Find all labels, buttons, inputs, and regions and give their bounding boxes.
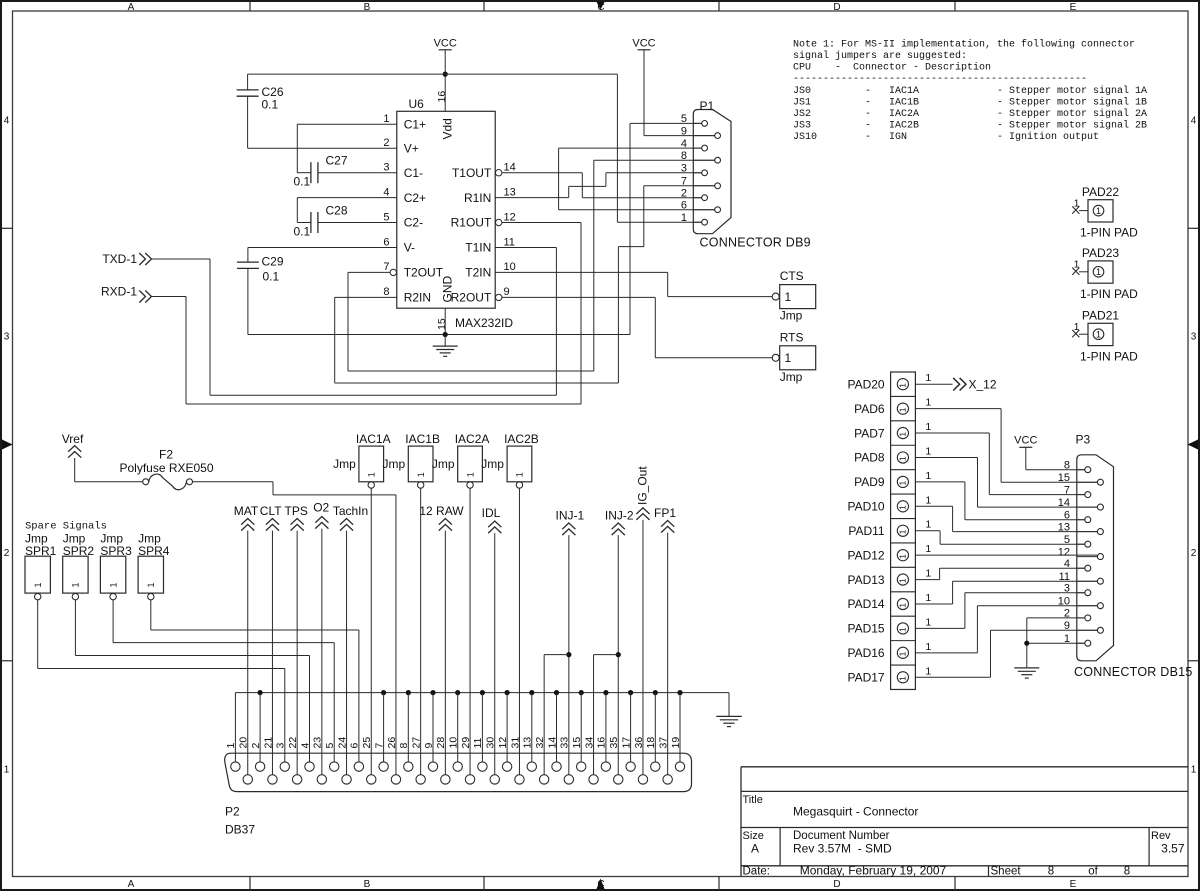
svg-text:1: 1 (1074, 259, 1080, 271)
svg-text:11: 11 (504, 236, 515, 248)
svg-text:15: 15 (1058, 472, 1070, 484)
svg-text:15: 15 (436, 318, 448, 330)
svg-text:PAD20: PAD20 (847, 377, 884, 391)
svg-text:14: 14 (504, 162, 516, 174)
svg-text:17: 17 (620, 737, 632, 749)
svg-text:1: 1 (925, 470, 931, 482)
svg-text:2: 2 (4, 548, 10, 559)
svg-text:13: 13 (504, 186, 516, 198)
svg-text:1: 1 (925, 592, 931, 604)
svg-text:31: 31 (509, 737, 521, 749)
svg-text:JS2 - IAC2A: JS2 - IAC2A - Stepper motor signal 2A (793, 108, 1147, 120)
svg-text:14: 14 (1058, 497, 1070, 509)
svg-text:1: 1 (366, 472, 376, 477)
svg-text:F2: F2 (159, 448, 173, 462)
svg-text:PAD15: PAD15 (847, 622, 884, 636)
svg-text:29: 29 (460, 737, 472, 749)
svg-text:------------------------------: ----------------------------------------… (793, 74, 1087, 85)
svg-text:1: 1 (898, 505, 908, 510)
svg-text:Size: Size (743, 830, 764, 842)
svg-text:PAD17: PAD17 (847, 670, 884, 684)
svg-text:12 RAW: 12 RAW (419, 504, 464, 518)
svg-text:5: 5 (681, 113, 687, 125)
svg-text:3: 3 (4, 332, 10, 343)
svg-text:1-PIN PAD: 1-PIN PAD (1080, 349, 1138, 363)
svg-text:Rev: Rev (1151, 830, 1171, 842)
svg-text:Jmp: Jmp (481, 457, 504, 471)
svg-text:9: 9 (681, 125, 687, 137)
svg-text:E: E (1070, 2, 1077, 13)
svg-text:8: 8 (398, 743, 410, 749)
svg-text:1: 1 (898, 676, 908, 681)
svg-text:0.1: 0.1 (263, 270, 280, 284)
svg-text:T2OUT: T2OUT (404, 266, 444, 280)
svg-text:PAD10: PAD10 (847, 500, 884, 514)
svg-text:4: 4 (383, 186, 389, 198)
svg-text:35: 35 (608, 737, 620, 749)
svg-text:of: of (1088, 866, 1098, 878)
svg-text:1: 1 (925, 494, 931, 506)
svg-text:1: 1 (925, 519, 931, 531)
svg-text:30: 30 (485, 737, 497, 749)
svg-text:T2IN: T2IN (465, 266, 491, 280)
svg-text:21: 21 (262, 737, 274, 749)
svg-text:P1: P1 (700, 99, 715, 113)
svg-text:4: 4 (681, 138, 687, 150)
svg-text:TachIn: TachIn (333, 504, 368, 518)
svg-text:PAD9: PAD9 (854, 475, 885, 489)
svg-text:19: 19 (670, 737, 682, 749)
svg-text:Rev 3.57M - SMD: Rev 3.57M - SMD (793, 841, 892, 855)
svg-text:9: 9 (1064, 620, 1070, 632)
svg-text:IG_Out: IG_Out (636, 466, 650, 505)
svg-text:2: 2 (1191, 548, 1197, 559)
svg-text:VCC: VCC (632, 38, 655, 50)
svg-text:11: 11 (1059, 571, 1070, 583)
svg-text:C1+: C1+ (404, 118, 426, 132)
svg-text:34: 34 (583, 737, 595, 749)
svg-text:1: 1 (225, 743, 237, 749)
svg-text:MAX232ID: MAX232ID (455, 316, 513, 330)
svg-text:4: 4 (1064, 558, 1070, 570)
svg-text:U6: U6 (409, 97, 425, 111)
svg-text:INJ-1: INJ-1 (556, 508, 585, 522)
svg-text:PAD22: PAD22 (1082, 185, 1119, 199)
svg-text:4: 4 (299, 743, 311, 749)
svg-text:IAC2B: IAC2B (504, 432, 539, 446)
svg-text:15: 15 (571, 737, 583, 749)
svg-text:1: 1 (785, 351, 792, 365)
svg-text:Jmp: Jmp (333, 457, 356, 471)
svg-text:B: B (364, 879, 371, 890)
svg-text:signal jumpers are suggested:: signal jumpers are suggested: (793, 50, 967, 62)
svg-text:A: A (128, 2, 135, 13)
svg-text:1: 1 (925, 641, 931, 653)
svg-text:8: 8 (383, 286, 389, 298)
svg-text:1: 1 (1074, 321, 1080, 333)
svg-text:1: 1 (681, 212, 687, 224)
svg-text:TPS: TPS (285, 504, 308, 518)
svg-text:Vdd: Vdd (441, 118, 455, 139)
svg-text:5: 5 (1064, 534, 1070, 546)
svg-text:V-: V- (404, 241, 415, 255)
svg-text:25: 25 (361, 737, 373, 749)
svg-text:PAD14: PAD14 (847, 597, 884, 611)
svg-text:PAD6: PAD6 (854, 402, 885, 416)
svg-text:2: 2 (383, 137, 389, 149)
svg-text:18: 18 (645, 737, 657, 749)
svg-text:T1OUT: T1OUT (452, 166, 492, 180)
svg-text:14: 14 (546, 737, 558, 749)
svg-text:B: B (364, 2, 371, 13)
svg-text:1: 1 (785, 290, 792, 304)
svg-text:INJ-2: INJ-2 (605, 508, 634, 522)
svg-text:CPU - Connector - Descript: CPU - Connector - Description (793, 62, 991, 74)
svg-text:6: 6 (681, 200, 687, 212)
svg-text:6: 6 (1064, 510, 1070, 522)
svg-text:R2OUT: R2OUT (451, 291, 492, 305)
svg-text:DB37: DB37 (225, 823, 255, 837)
svg-text:5: 5 (383, 211, 389, 223)
svg-text:8: 8 (681, 150, 687, 162)
svg-text:9: 9 (423, 743, 435, 749)
svg-text:1: 1 (416, 472, 426, 477)
svg-text:PAD21: PAD21 (1082, 309, 1119, 323)
svg-text:1: 1 (925, 543, 931, 555)
svg-text:V+: V+ (404, 141, 419, 155)
svg-text:1: 1 (925, 372, 931, 384)
svg-text:PAD8: PAD8 (854, 451, 885, 465)
svg-text:22: 22 (287, 737, 299, 749)
svg-text:RXD-1: RXD-1 (101, 285, 137, 299)
svg-text:37: 37 (657, 737, 669, 749)
svg-text:VCC: VCC (434, 38, 457, 50)
svg-text:E: E (1070, 879, 1077, 890)
svg-text:10: 10 (448, 737, 460, 749)
svg-text:JS0 - IAC1A: JS0 - IAC1A - Stepper motor signal 1A (793, 85, 1147, 97)
svg-text:JS3 - IAC2B: JS3 - IAC2B - Stepper motor signal 2B (793, 120, 1147, 132)
svg-text:O2: O2 (313, 501, 329, 515)
svg-text:0.1: 0.1 (262, 98, 279, 112)
svg-text:3.57: 3.57 (1161, 841, 1185, 855)
svg-text:0.1: 0.1 (294, 175, 311, 189)
svg-text:D: D (833, 879, 840, 890)
svg-text:9: 9 (504, 286, 510, 298)
svg-text:1: 1 (898, 651, 908, 656)
svg-text:Date:: Date: (743, 866, 771, 878)
svg-text:23: 23 (312, 737, 324, 749)
svg-text:JS1 - IAC1B: JS1 - IAC1B - Stepper motor signal 1B (793, 96, 1147, 108)
svg-text:7: 7 (681, 176, 687, 188)
svg-text:R1IN: R1IN (464, 191, 491, 205)
svg-text:Jmp: Jmp (432, 457, 455, 471)
svg-text:1: 1 (1096, 330, 1101, 340)
svg-text:Document Number: Document Number (793, 830, 890, 842)
svg-text:1: 1 (898, 603, 908, 608)
svg-text:1: 1 (898, 627, 908, 632)
svg-text:1: 1 (925, 568, 931, 580)
svg-text:1: 1 (898, 456, 908, 461)
svg-text:1: 1 (1096, 267, 1101, 277)
svg-text:FP1: FP1 (654, 506, 676, 520)
svg-text:C2+: C2+ (404, 191, 426, 205)
svg-text:Sheet: Sheet (991, 866, 1022, 878)
svg-text:1: 1 (383, 113, 389, 125)
svg-text:1: 1 (108, 582, 118, 587)
svg-text:32: 32 (534, 737, 546, 749)
svg-text:P2: P2 (225, 805, 240, 819)
svg-text:PAD23: PAD23 (1082, 246, 1119, 260)
svg-text:36: 36 (633, 737, 645, 749)
svg-text:1: 1 (925, 421, 931, 433)
svg-text:TXD-1: TXD-1 (102, 252, 137, 266)
svg-text:C28: C28 (326, 204, 348, 218)
svg-text:Jmp: Jmp (382, 457, 405, 471)
svg-text:1: 1 (898, 480, 908, 485)
svg-text:C29: C29 (262, 255, 284, 269)
svg-text:8: 8 (1124, 866, 1130, 878)
svg-text:D: D (833, 2, 840, 13)
svg-text:X_12: X_12 (969, 377, 997, 391)
svg-text:10: 10 (504, 261, 516, 273)
svg-text:3: 3 (275, 743, 287, 749)
svg-text:1: 1 (4, 764, 10, 775)
svg-text:PAD7: PAD7 (854, 426, 885, 440)
svg-text:3: 3 (681, 163, 687, 175)
svg-text:24: 24 (336, 737, 348, 749)
svg-text:12: 12 (497, 737, 509, 749)
svg-text:1: 1 (898, 432, 908, 437)
svg-text:A: A (128, 879, 135, 890)
svg-text:PAD12: PAD12 (847, 548, 884, 562)
svg-text:JS10 - IGN: JS10 - IGN - Ignition output (793, 131, 1099, 143)
svg-text:4: 4 (4, 116, 10, 127)
svg-text:CLT: CLT (260, 504, 282, 518)
svg-text:16: 16 (596, 737, 608, 749)
svg-text:16: 16 (436, 91, 448, 103)
svg-text:CONNECTOR DB9: CONNECTOR DB9 (700, 236, 811, 250)
svg-text:1-PIN PAD: 1-PIN PAD (1080, 287, 1138, 301)
svg-text:1: 1 (925, 397, 931, 409)
svg-text:26: 26 (386, 737, 398, 749)
svg-text:Jmp: Jmp (780, 309, 803, 323)
svg-text:1: 1 (1096, 206, 1101, 216)
svg-text:1: 1 (1191, 764, 1197, 775)
svg-text:Jmp: Jmp (780, 370, 803, 384)
svg-text:1: 1 (898, 554, 908, 559)
svg-text:R2IN: R2IN (404, 291, 431, 305)
svg-text:1-PIN PAD: 1-PIN PAD (1080, 226, 1138, 240)
svg-text:1: 1 (515, 472, 525, 477)
svg-text:33: 33 (559, 737, 571, 749)
svg-text:13: 13 (1058, 521, 1070, 533)
svg-text:1: 1 (925, 665, 931, 677)
svg-text:1: 1 (898, 578, 908, 583)
svg-text:C2-: C2- (404, 216, 423, 230)
svg-text:1: 1 (146, 582, 156, 587)
svg-text:VCC: VCC (1014, 434, 1037, 446)
svg-text:7: 7 (383, 261, 389, 273)
svg-text:IAC1B: IAC1B (405, 432, 440, 446)
svg-text:1: 1 (1074, 197, 1080, 209)
svg-text:1: 1 (898, 383, 908, 388)
svg-text:IAC1A: IAC1A (356, 432, 391, 446)
svg-text:3: 3 (383, 162, 389, 174)
svg-text:20: 20 (238, 737, 250, 749)
svg-text:P3: P3 (1076, 432, 1091, 446)
svg-text:C1-: C1- (404, 166, 423, 180)
svg-text:1: 1 (925, 616, 931, 628)
svg-text:Title: Title (743, 794, 763, 806)
svg-text:3: 3 (1064, 583, 1070, 595)
svg-text:4: 4 (1191, 116, 1197, 127)
svg-text:11: 11 (472, 737, 484, 748)
svg-text:7: 7 (373, 743, 385, 749)
svg-text:7: 7 (1064, 484, 1070, 496)
svg-text:RTS: RTS (780, 330, 804, 344)
svg-text:2: 2 (681, 188, 687, 200)
svg-text:MAT: MAT (234, 504, 259, 518)
svg-text:6: 6 (349, 743, 361, 749)
svg-text:5: 5 (324, 743, 336, 749)
svg-text:CONNECTOR DB15: CONNECTOR DB15 (1074, 665, 1193, 679)
svg-text:A: A (751, 841, 759, 855)
svg-text:Monday, February 19, 2007: Monday, February 19, 2007 (800, 864, 947, 878)
svg-text:8: 8 (1048, 866, 1054, 878)
svg-text:28: 28 (435, 737, 447, 749)
svg-text:1: 1 (898, 407, 908, 412)
svg-text:Polyfuse RXE050: Polyfuse RXE050 (119, 461, 213, 475)
svg-text:3: 3 (1191, 332, 1197, 343)
svg-text:C27: C27 (326, 154, 348, 168)
svg-text:PAD11: PAD11 (848, 524, 885, 538)
svg-text:12: 12 (504, 211, 516, 223)
svg-text:Note 1: For MS-II implementati: Note 1: For MS-II implementation, the fo… (793, 38, 1135, 50)
svg-text:IDL: IDL (482, 506, 501, 520)
svg-text:1: 1 (898, 529, 908, 534)
svg-text:10: 10 (1058, 596, 1070, 608)
svg-text:1: 1 (71, 582, 81, 587)
svg-text:PAD13: PAD13 (847, 573, 884, 587)
svg-text:T1IN: T1IN (465, 241, 491, 255)
svg-text:PAD16: PAD16 (847, 646, 884, 660)
svg-text:13: 13 (522, 737, 534, 749)
svg-text:R1OUT: R1OUT (451, 216, 492, 230)
svg-text:CTS: CTS (780, 269, 804, 283)
svg-text:0.1: 0.1 (294, 225, 311, 239)
svg-text:1: 1 (33, 582, 43, 587)
svg-text:Vref: Vref (62, 432, 84, 446)
svg-text:12: 12 (1058, 546, 1070, 558)
svg-text:2: 2 (250, 743, 262, 749)
svg-text:IAC2A: IAC2A (455, 432, 490, 446)
svg-text:1: 1 (465, 472, 475, 477)
svg-text:1: 1 (925, 445, 931, 457)
svg-text:6: 6 (383, 236, 389, 248)
svg-text:27: 27 (410, 737, 422, 749)
svg-text:Megasquirt - Connector: Megasquirt - Connector (793, 804, 918, 818)
